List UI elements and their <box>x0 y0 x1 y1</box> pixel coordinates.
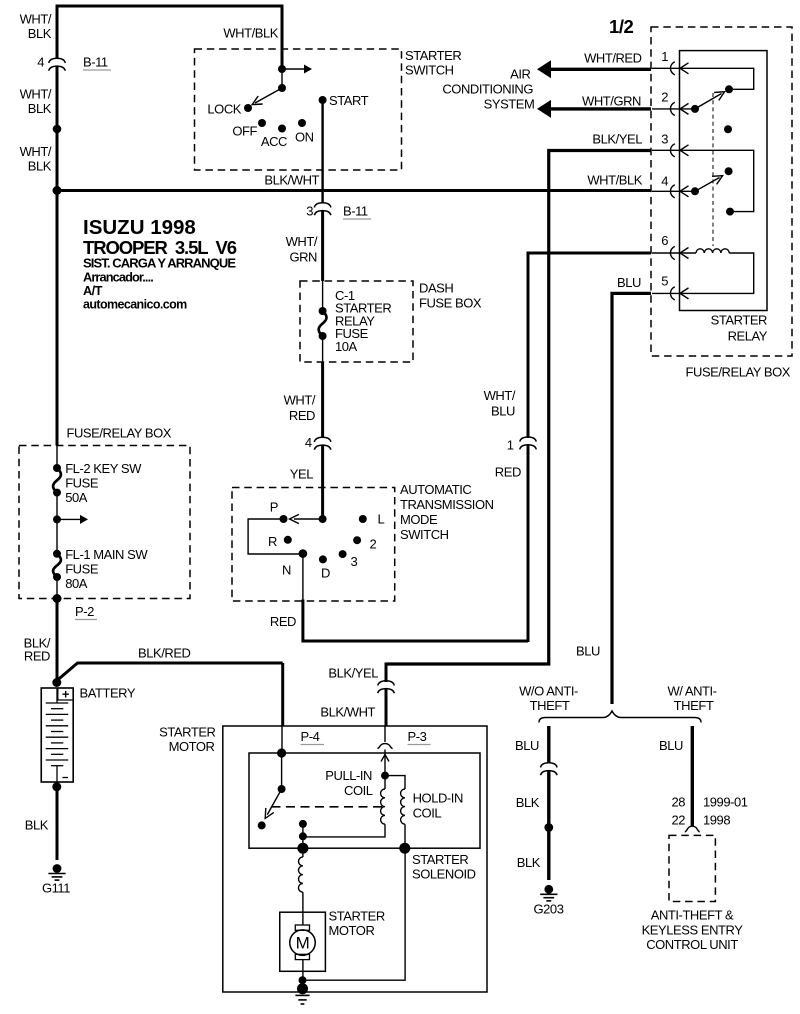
svg-text:P: P <box>270 500 278 515</box>
svg-text:P-3: P-3 <box>408 729 427 744</box>
node motor ground junction <box>299 976 307 984</box>
svg-text:COIL: COIL <box>413 806 442 821</box>
svg-text:ACC: ACC <box>261 134 287 149</box>
wire RED down and right <box>303 600 528 642</box>
svg-text:BLU: BLU <box>617 275 641 290</box>
svg-text:M: M <box>296 934 310 953</box>
ground starter motor case <box>297 983 308 994</box>
svg-text:automecanico.com: automecanico.com <box>83 298 187 312</box>
wire P to N <box>248 519 303 554</box>
node BLK splice <box>544 823 553 832</box>
node battery negative <box>52 782 61 791</box>
svg-text:RED: RED <box>289 408 315 423</box>
motor brush upper <box>302 912 304 925</box>
svg-text:BLK: BLK <box>25 818 49 833</box>
svg-text:BLU: BLU <box>659 738 683 753</box>
wire BLK/YEL drop <box>385 663 388 683</box>
contact LOCK <box>244 104 252 112</box>
svg-text:BLK/YEL: BLK/YEL <box>328 666 378 681</box>
svg-text:ON: ON <box>295 130 314 145</box>
svg-text:P-2: P-2 <box>75 604 94 619</box>
svg-text:BATTERY: BATTERY <box>80 686 136 701</box>
connector B-11 pin 3 <box>314 203 331 208</box>
wire motor to case ground <box>302 980 304 989</box>
contact 3 <box>339 550 347 558</box>
wire RED out of mode switch <box>302 554 304 601</box>
svg-text:STARTER: STARTER <box>412 852 468 867</box>
svg-text:RED: RED <box>495 465 521 480</box>
svg-text:BLK: BLK <box>28 26 52 41</box>
svg-text:CONDITIONING: CONDITIONING <box>442 82 533 97</box>
wire BLK w/o branch <box>547 771 550 828</box>
svg-text:1: 1 <box>507 438 514 453</box>
svg-text:WHT/: WHT/ <box>484 388 516 403</box>
node splice on left rail <box>53 125 62 134</box>
arrow to AC from pin 2 <box>549 107 651 110</box>
svg-text:LOCK: LOCK <box>207 102 241 117</box>
motor M circle <box>290 930 316 956</box>
node P-2 junction <box>53 594 62 603</box>
relay contact NC upper (open) <box>724 125 732 133</box>
wire WHT/BLK left rail vertical mid <box>56 67 59 191</box>
svg-text:BLU: BLU <box>515 738 539 753</box>
wire WHT/BLK left rail vertical upper <box>56 5 59 59</box>
wire RED up to connector 1 <box>527 445 530 642</box>
svg-text:SIST. CARGA Y ARRANQUE: SIST. CARGA Y ARRANQUE <box>83 256 236 271</box>
svg-text:1998: 1998 <box>703 813 730 828</box>
svg-text:22: 22 <box>671 813 685 828</box>
pin 3 connector <box>670 144 674 157</box>
svg-text:STARTER: STARTER <box>405 48 461 63</box>
svg-text:OFF: OFF <box>232 124 257 139</box>
svg-text:RED: RED <box>270 614 296 629</box>
svg-text:5: 5 <box>661 274 668 289</box>
svg-text:AUTOMATIC: AUTOMATIC <box>400 482 471 497</box>
wire into fuse C-1 <box>322 281 324 311</box>
contact D <box>319 555 327 563</box>
svg-text:STARTER: STARTER <box>711 313 767 328</box>
wire out of fuse C-1 <box>322 336 324 362</box>
svg-text:80A: 80A <box>65 576 88 591</box>
wire WHT/RED below dash fuse box <box>321 362 324 438</box>
svg-text:W/O ANTI-: W/O ANTI- <box>519 684 578 699</box>
svg-text:TRANSMISSION: TRANSMISSION <box>400 497 494 512</box>
wire switch common drop <box>281 69 283 88</box>
wire YEL into mode switch <box>321 445 324 519</box>
svg-text:W/ ANTI-: W/ ANTI- <box>667 684 716 699</box>
starter relay box <box>680 51 768 311</box>
svg-text:ANTI-THEFT &: ANTI-THEFT & <box>651 908 734 923</box>
svg-text:FUSE/RELAY BOX: FUSE/RELAY BOX <box>67 426 172 441</box>
relay contact NO lower (open) <box>725 167 733 175</box>
relay actuator dashed link <box>712 93 714 246</box>
starter motor box <box>280 912 326 971</box>
svg-text:KEYLESS ENTRY: KEYLESS ENTRY <box>642 923 744 938</box>
relay lower arm <box>695 178 720 192</box>
fuse FL-2 element <box>53 468 61 493</box>
pull-in coil bottom wire <box>303 824 385 837</box>
svg-text:WHT/: WHT/ <box>20 12 52 27</box>
node fuse C-1 top <box>319 307 327 315</box>
svg-text:B-11: B-11 <box>343 204 368 219</box>
svg-text:WHT/GRN: WHT/GRN <box>582 94 641 109</box>
svg-text:DASH: DASH <box>419 281 453 296</box>
svg-text:BLU: BLU <box>491 404 515 419</box>
svg-text:1: 1 <box>661 49 668 64</box>
svg-text:BLK/WHT: BLK/WHT <box>320 705 375 720</box>
fuse/relay box (left) dashed <box>19 446 190 599</box>
node solenoid output <box>297 843 308 854</box>
node fuse C-1 bottom <box>319 332 327 340</box>
starter motor field coil <box>302 848 304 857</box>
wire BLK/RED battery to starter <box>57 663 283 681</box>
svg-text:FL-1 MAIN SW: FL-1 MAIN SW <box>65 547 148 562</box>
svg-text:MOTOR: MOTOR <box>169 739 215 754</box>
starter motor assembly box <box>223 726 487 992</box>
wire WHT/BLK drop into starter switch <box>281 5 284 70</box>
fuse FL-1 element <box>53 554 61 577</box>
svg-text:1999-01: 1999-01 <box>703 795 748 810</box>
svg-text:BLK: BLK <box>517 855 541 870</box>
svg-text:FL-2 KEY SW: FL-2 KEY SW <box>65 461 142 476</box>
wire P-3 entry with arrow <box>381 755 389 762</box>
pull-in coil <box>384 776 386 789</box>
svg-text:SWITCH: SWITCH <box>405 63 454 78</box>
ground G111 <box>53 864 62 873</box>
svg-text:50A: 50A <box>65 490 88 505</box>
svg-text:THEFT: THEFT <box>674 698 714 713</box>
svg-text:SWITCH: SWITCH <box>400 527 449 542</box>
svg-text:WHT/: WHT/ <box>286 234 318 249</box>
svg-text:+: + <box>62 687 70 702</box>
svg-text:COIL: COIL <box>344 783 373 798</box>
svg-text:N: N <box>282 563 291 578</box>
wire thin to P-4 node <box>281 726 283 753</box>
wire WHT/BLK top-left rail horizontal <box>57 5 282 8</box>
wire BLU w/ branch <box>691 726 694 826</box>
svg-text:ISUZU 1998: ISUZU 1998 <box>83 216 196 239</box>
battery plates and minus <box>56 688 58 703</box>
node switch pivot <box>278 84 286 92</box>
relay upper arm <box>695 94 722 109</box>
svg-text:4: 4 <box>305 435 312 450</box>
svg-text:HOLD-IN: HOLD-IN <box>413 791 463 806</box>
hold-in coil bottom wire <box>404 824 406 848</box>
svg-text:RED: RED <box>24 649 50 664</box>
connector anti-theft unit <box>685 826 700 832</box>
svg-text:28: 28 <box>671 795 685 810</box>
relay lower arm common <box>691 187 699 195</box>
svg-text:BLK/RED: BLK/RED <box>138 646 191 661</box>
wire WHT/BLK horizontal to relay pin 4 <box>57 189 651 192</box>
solenoid linkage dashed <box>272 806 385 808</box>
svg-text:FUSE BOX: FUSE BOX <box>419 296 482 311</box>
wire thin to P-3 connector <box>384 726 386 742</box>
dash fuse box <box>300 281 413 362</box>
svg-text:RELAY: RELAY <box>728 329 768 344</box>
svg-text:CONTROL UNIT: CONTROL UNIT <box>646 937 738 952</box>
starter solenoid box <box>249 753 480 848</box>
battery plus terminal box <box>58 688 73 700</box>
wire BLK/YEL from relay pin 3 <box>386 151 651 665</box>
svg-text:STARTER: STARTER <box>329 909 385 924</box>
svg-text:R: R <box>268 534 277 549</box>
battery B1 box <box>41 688 73 782</box>
wire WHT/BLU from relay pin 6 <box>528 253 651 438</box>
anti-theft control unit box <box>669 835 715 901</box>
svg-text:WHT/: WHT/ <box>20 87 52 102</box>
wire BLU w/o branch <box>547 726 550 764</box>
pin 6 connector <box>670 246 674 259</box>
svg-text:P-4: P-4 <box>301 729 320 744</box>
hold-in coil <box>401 789 405 824</box>
wire into FL-2 <box>56 446 58 469</box>
svg-text:THEFT: THEFT <box>530 698 570 713</box>
connector BLK/YEL-BLK/WHT <box>378 681 395 686</box>
node junction left rail / WHT-BLK feed <box>53 186 62 195</box>
solenoid switch pivot <box>278 785 286 793</box>
pin 6 internal wire <box>652 252 696 254</box>
node FL-2 top <box>53 464 61 472</box>
node switch common <box>278 65 286 73</box>
wire WHT/GRN down to dash fuse box <box>321 211 324 282</box>
contact R <box>284 536 292 544</box>
svg-text:2: 2 <box>370 537 377 552</box>
pin 2 internal wire <box>652 108 695 110</box>
solenoid moving contact lower <box>299 832 307 840</box>
switch arm to LOCK <box>255 88 282 103</box>
wire FL-2 to junction <box>56 493 58 554</box>
contact OFF <box>258 119 266 127</box>
svg-text:4: 4 <box>37 55 44 70</box>
wire FL-1 to box edge <box>56 577 58 599</box>
node mode switch feed <box>319 515 327 523</box>
node P-4 <box>277 748 286 757</box>
svg-text:WHT/RED: WHT/RED <box>584 51 642 66</box>
svg-text:6: 6 <box>661 233 668 248</box>
solenoid contact link wire <box>302 824 304 848</box>
svg-text:FUSE: FUSE <box>65 476 99 491</box>
wire BLK to G203 <box>547 828 550 881</box>
svg-text:FUSE/RELAY BOX: FUSE/RELAY BOX <box>686 365 791 380</box>
pin 5 connector <box>670 287 674 300</box>
pin 2 connector <box>670 102 674 115</box>
fuse C-1 element <box>319 311 327 336</box>
wire BLK/RED drop to P-4 <box>281 663 284 726</box>
relay contact lower (to pin3) <box>726 208 734 216</box>
svg-text:WHT/: WHT/ <box>284 393 316 408</box>
relay coil <box>696 249 729 253</box>
wire BLU from relay pin 5 <box>612 293 651 704</box>
contact ACC <box>278 125 286 133</box>
pin 1 internal wire <box>652 68 754 89</box>
wire BLK/WHT from START <box>321 100 323 203</box>
fuse/relay box (right) dashed <box>651 27 792 356</box>
svg-text:STARTER: STARTER <box>159 725 215 740</box>
arrow right from junction <box>57 518 80 520</box>
svg-text:YEL: YEL <box>290 467 313 482</box>
svg-text:3: 3 <box>351 554 358 569</box>
svg-text:AIR: AIR <box>510 66 530 81</box>
connector BLU-BLK <box>541 763 558 768</box>
node solenoid ground-side <box>399 843 410 854</box>
contact P <box>280 515 288 523</box>
connector P-3 female half <box>377 744 392 749</box>
svg-text:2: 2 <box>661 90 668 105</box>
svg-text:A/T: A/T <box>83 283 103 298</box>
node feed junction with arrow <box>53 515 61 523</box>
mode switch arrow to P <box>294 518 323 520</box>
svg-text:SYSTEM: SYSTEM <box>484 96 535 111</box>
svg-text:BLK: BLK <box>28 101 52 116</box>
svg-text:B-11: B-11 <box>83 55 108 70</box>
svg-text:MODE: MODE <box>400 512 438 527</box>
svg-text:1/2: 1/2 <box>609 16 634 37</box>
starter switch box <box>195 49 402 170</box>
wire left rail to fuse box <box>56 191 59 446</box>
svg-text:SOLENOID: SOLENOID <box>412 867 476 882</box>
solenoid return wire <box>303 848 406 980</box>
svg-text:BLK/YEL: BLK/YEL <box>592 132 642 147</box>
node FL-1 top <box>53 550 61 558</box>
svg-text:D: D <box>321 566 330 581</box>
svg-text:BLK: BLK <box>516 795 540 810</box>
contact START <box>319 96 327 104</box>
connector 1 <box>520 437 537 442</box>
node FL-2 bottom <box>53 489 61 497</box>
pin 1 connector <box>670 62 674 75</box>
motor brush lower <box>295 954 309 959</box>
solenoid switch wire <box>281 753 283 789</box>
svg-text:GRN: GRN <box>289 250 317 265</box>
svg-text:FUSE: FUSE <box>65 562 99 577</box>
pin 4 internal wire <box>652 190 695 192</box>
node battery positive junction <box>52 678 61 687</box>
svg-text:G203: G203 <box>533 902 563 917</box>
svg-text:L: L <box>378 512 385 527</box>
switch arrow right <box>282 68 304 70</box>
relay upper arm common <box>691 105 699 113</box>
brace split <box>539 711 701 723</box>
solenoid moving contact upper <box>299 820 307 828</box>
svg-text:BLK/WHT: BLK/WHT <box>264 173 319 188</box>
solenoid switch arm <box>267 789 281 815</box>
svg-text:MOTOR: MOTOR <box>329 923 375 938</box>
node pull-in/hold-in junction <box>381 772 389 780</box>
wire BLK/WHT to P-3 <box>385 689 388 727</box>
svg-text:3: 3 <box>661 132 668 147</box>
contact ON <box>298 119 306 127</box>
relay coil to pin 5 wire <box>652 253 754 293</box>
svg-text:WHT/: WHT/ <box>20 144 52 159</box>
svg-text:BLK: BLK <box>28 159 52 174</box>
hold-in coil feed wire <box>385 776 405 789</box>
svg-text:WHT/BLK: WHT/BLK <box>587 173 642 188</box>
svg-text:10A: 10A <box>335 339 358 354</box>
svg-text:START: START <box>329 93 369 108</box>
solenoid switch contact <box>258 821 266 829</box>
automatic transmission mode switch box <box>232 488 395 602</box>
pin 4 connector <box>670 185 674 198</box>
svg-text:4: 4 <box>661 174 668 189</box>
arrow to AC from pin 1 <box>549 68 651 71</box>
contact 2 <box>353 536 361 544</box>
pin 3 internal wire <box>652 150 754 211</box>
svg-text:3: 3 <box>306 204 313 219</box>
relay contact NO upper <box>725 85 733 93</box>
connector 4 <box>314 437 331 442</box>
contact L <box>359 515 367 523</box>
svg-text:BLU: BLU <box>576 644 600 659</box>
wire BLK battery to ground <box>56 787 59 860</box>
svg-text:WHT/BLK: WHT/BLK <box>223 26 278 41</box>
contact N <box>299 549 308 558</box>
svg-text:G111: G111 <box>42 881 70 896</box>
node FL-1 bottom <box>53 573 61 581</box>
ground G203 <box>544 885 553 894</box>
connector B-11 pin 4 <box>49 58 66 63</box>
svg-text:PULL-IN: PULL-IN <box>325 768 372 783</box>
wire BLK/RED below fuse box <box>56 599 59 682</box>
